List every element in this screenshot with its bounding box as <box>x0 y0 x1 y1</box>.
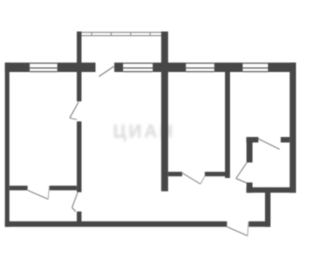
wall: right exterior <box>290 63 296 193</box>
wall: door post between balcony door and W2 <box>114 63 123 72</box>
wall: top exterior segment right <box>268 63 296 72</box>
door A1 leaf <box>70 102 79 120</box>
window W1 <box>30 63 58 73</box>
wall A lower <box>77 212 82 223</box>
window W4 <box>243 63 268 73</box>
window W3 <box>186 63 214 73</box>
bathroom top wall right piece <box>281 137 290 143</box>
bathroom top door leaf <box>258 139 279 150</box>
wall H2 right segment <box>205 172 230 177</box>
door H2 leaf <box>182 172 205 184</box>
bathroom bottom wall <box>246 187 296 192</box>
wall: bottom exterior left of entrance door <box>5 221 227 227</box>
window W2 <box>123 63 153 73</box>
wall A upper (balcony left wall down to door A1) <box>77 32 82 102</box>
door A2 folded leaf <box>72 193 78 212</box>
balcony door opening + leaf <box>99 66 114 76</box>
wall: top exterior segment between W3 and W4 <box>214 63 242 72</box>
wall V2 (below bathroom to bottom wall) <box>265 190 271 227</box>
bathroom top wall left piece <box>246 137 258 143</box>
bathroom left wall upper <box>247 143 253 163</box>
wall B (balcony right wall, continuous to y=191.3) <box>161 32 168 192</box>
wall D <box>225 71 230 178</box>
door H1 leaf <box>28 186 50 199</box>
wall A middle <box>77 121 82 192</box>
wall: top exterior segment between W1 and balcony door <box>57 63 95 72</box>
wall H2 left segment <box>168 172 182 177</box>
wall H1 left segment <box>9 186 27 191</box>
wall H1 right segment <box>50 186 77 191</box>
balcony rail <box>79 32 163 36</box>
wall: top exterior segment left <box>5 63 30 72</box>
entrance door leaf <box>227 222 249 236</box>
bathroom left door folded leaf <box>236 163 247 184</box>
wall: top exterior segment between W2 and W3 <box>153 63 186 72</box>
wall: left exterior <box>5 63 9 227</box>
wall: bottom exterior right of entrance door <box>249 221 271 227</box>
bathroom left wall lower stub <box>247 183 253 193</box>
